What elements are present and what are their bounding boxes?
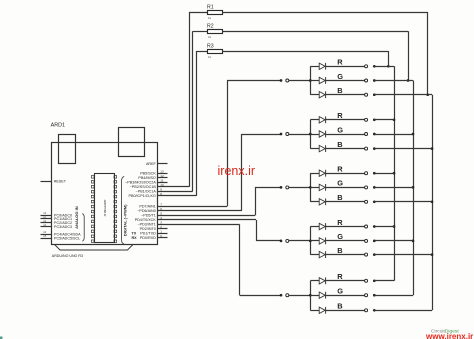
junction common node group 5 xyxy=(309,294,312,297)
wire group 5 feed vertical xyxy=(239,224,241,295)
RGB LED group 5 xyxy=(158,224,433,313)
diode group 3 B xyxy=(319,199,325,205)
wire group 5 B to bus xyxy=(374,310,432,312)
wire R1 left vertical xyxy=(189,12,191,187)
wire group 3 R to bus xyxy=(374,173,394,175)
svg-text:PD7/AIN1: PD7/AIN1 xyxy=(139,205,155,209)
junction B bus / group 2 xyxy=(431,147,434,150)
RGB LED group 1 xyxy=(158,58,433,207)
junction R bus / group 3 xyxy=(393,172,396,175)
terminal group 2 B output xyxy=(365,147,368,150)
terminal group 5 input xyxy=(286,294,289,297)
wire terminal to common node group 4 xyxy=(289,240,310,242)
wire end dot group 2 R xyxy=(373,118,376,121)
svg-text:B: B xyxy=(337,193,342,202)
wire end dot group 3 R xyxy=(373,172,376,175)
diode group 1 G xyxy=(319,77,325,83)
wire group 2 feed horizontal xyxy=(242,134,281,136)
diode group 1 B xyxy=(319,92,325,98)
usb connector box xyxy=(59,135,76,164)
svg-text:B: B xyxy=(337,140,342,149)
terminal group 1 input xyxy=(286,79,289,82)
svg-text:RX: RX xyxy=(132,236,138,240)
resistor R2 xyxy=(207,24,223,39)
wire end dot group 4 B xyxy=(373,253,376,256)
wire R2 right horizontal xyxy=(223,31,409,33)
pin PD1/TXD stub (unconnected) xyxy=(158,233,168,235)
terminal group 3 R output xyxy=(365,172,368,175)
LED group 4 G cathode wire xyxy=(326,240,365,242)
wire arduino pin 10 to R1 (horizontal) xyxy=(158,186,190,188)
diode group 4 G xyxy=(319,238,325,244)
svg-text:1k: 1k xyxy=(208,35,212,39)
svg-text:13: 13 xyxy=(160,170,164,174)
wire R bus vertical xyxy=(394,66,396,280)
resistor R3 xyxy=(207,43,223,58)
wire end dot group 4 G xyxy=(373,240,376,243)
svg-text:11: 11 xyxy=(160,179,163,183)
terminal group 4 R output xyxy=(365,225,368,228)
pin PC3/ADC3 stub (analog A3) xyxy=(41,226,52,228)
wire group 1 R to bus xyxy=(374,66,394,68)
svg-text:DIGITAL (~PWM): DIGITAL (~PWM) xyxy=(123,204,128,236)
LED group 5 B anode wire xyxy=(310,310,319,312)
LED group 1 G cathode wire xyxy=(326,80,365,82)
svg-text:R: R xyxy=(337,218,343,227)
svg-text:RESET: RESET xyxy=(54,179,67,183)
wire end dot group 1 B xyxy=(373,93,376,96)
svg-text:~PD5/T1: ~PD5/T1 xyxy=(141,214,156,218)
wire group 1 B to bus xyxy=(374,94,432,96)
wire end dot group 2 xyxy=(280,133,283,136)
LED group 1 R cathode wire xyxy=(326,66,365,68)
wire R3 right horizontal xyxy=(223,51,389,53)
LED group 1 B cathode wire xyxy=(326,94,365,96)
LED group 4 G anode wire xyxy=(310,240,319,242)
LED group 3 R anode wire xyxy=(310,173,319,175)
svg-text:PD2/INT0: PD2/INT0 xyxy=(140,227,156,231)
wire group 2 B to bus xyxy=(374,148,432,150)
junction common node group 3 xyxy=(309,186,312,189)
svg-text:G: G xyxy=(337,287,343,296)
wire group 3 B to bus xyxy=(374,201,432,203)
wire end dot group 5 G xyxy=(373,294,376,297)
junction G bus / group 4 xyxy=(412,240,415,243)
pin PD0/RXD stub (unconnected) xyxy=(158,237,168,239)
svg-text:PC3/ADC3: PC3/ADC3 xyxy=(54,225,72,229)
diode group 5 B xyxy=(319,307,325,313)
wire terminal to common node group 2 xyxy=(289,134,310,136)
junction R bus / group 4 xyxy=(393,225,396,228)
svg-text:PB0/ICP1/CLKO: PB0/ICP1/CLKO xyxy=(129,194,156,198)
wire end dot group 5 B xyxy=(373,309,376,312)
wire common vertical group 4 xyxy=(310,227,312,255)
junction R2 drop to group 1 row xyxy=(407,79,410,82)
wire group 3 feed horizontal xyxy=(255,187,281,189)
pin AREF stub xyxy=(158,163,168,165)
digital group bracket xyxy=(122,176,125,244)
svg-text:12: 12 xyxy=(160,174,164,178)
svg-text:G: G xyxy=(337,125,343,134)
wire R3 bus drop vertical xyxy=(388,51,390,66)
resistor R1 xyxy=(207,4,223,19)
arduino board ARD1 xyxy=(41,123,168,259)
wire end dot group 3 G xyxy=(373,186,376,189)
junction B bus / group 3 xyxy=(431,200,434,203)
LED group 1 G anode wire xyxy=(310,80,319,82)
wire R1 bus drop vertical xyxy=(427,12,429,95)
wire end dot group 5 xyxy=(280,294,283,297)
svg-text:ARD1: ARD1 xyxy=(51,123,65,129)
terminal group 2 R output xyxy=(365,118,368,121)
LED group 3 R cathode wire xyxy=(326,173,365,175)
wire group 2 R to bus xyxy=(374,119,394,121)
diode group 5 G xyxy=(319,292,325,298)
LED group 5 R anode wire xyxy=(310,280,319,282)
junction B bus / group 4 xyxy=(431,253,434,256)
svg-text:B: B xyxy=(337,302,342,311)
terminal group 4 input xyxy=(286,239,289,242)
svg-text:B: B xyxy=(337,86,342,95)
wire common vertical group 2 xyxy=(310,120,312,149)
svg-text:~PB3/MOSI/OC2A: ~PB3/MOSI/OC2A xyxy=(125,181,156,185)
pin RESET stub xyxy=(41,181,52,183)
wire end dot group 1 G xyxy=(373,79,376,82)
terminal group 1 G output xyxy=(365,79,368,82)
terminal group 3 B output xyxy=(365,200,368,203)
wire common vertical group 5 xyxy=(310,281,312,311)
pin PB4/MISO stub (unconnected) xyxy=(158,177,168,179)
LED group 3 B anode wire xyxy=(310,201,319,203)
wire group 3 G to bus xyxy=(374,187,413,189)
LED group 3 B cathode wire xyxy=(326,201,365,203)
wire end dot group 1 R xyxy=(373,65,376,68)
wire group 5 feed horizontal xyxy=(240,295,281,297)
wire terminal to common node group 3 xyxy=(289,187,310,189)
diode group 2 B xyxy=(319,145,325,151)
LED group 2 G anode wire xyxy=(310,134,319,136)
svg-text:PD4/T0/XCK: PD4/T0/XCK xyxy=(135,218,157,222)
diode group 4 B xyxy=(319,251,325,257)
svg-text:1k: 1k xyxy=(208,16,212,20)
svg-text:G: G xyxy=(337,232,343,241)
RGB LED group 4 xyxy=(158,218,433,258)
wire end dot group 3 B xyxy=(373,200,376,203)
LED group 1 R anode wire xyxy=(310,66,319,68)
svg-text:ATMEGA328P: ATMEGA328P xyxy=(103,199,107,216)
IC pin squares left and right xyxy=(91,176,116,243)
svg-text:irenx.ir: irenx.ir xyxy=(218,164,256,178)
diode group 4 R xyxy=(319,223,325,229)
wire R2 bus drop vertical xyxy=(408,31,410,80)
LED group 4 B anode wire xyxy=(310,254,319,256)
LED group 5 B cathode wire xyxy=(326,310,365,312)
svg-text:ARDUINO UNO R3: ARDUINO UNO R3 xyxy=(52,254,83,258)
terminal group 2 input xyxy=(286,133,289,136)
svg-text:~PD6/AIN0: ~PD6/AIN0 xyxy=(137,209,156,213)
svg-text:R1: R1 xyxy=(207,4,214,10)
terminal group 1 R output xyxy=(365,65,368,68)
wire arduino pin 7 to group 1 (horizontal) xyxy=(158,206,228,208)
wire terminal to common node group 5 xyxy=(289,295,310,297)
LED group 2 R cathode wire xyxy=(326,119,365,121)
svg-text:www.irenx.ir: www.irenx.ir xyxy=(425,332,473,339)
wire G bus vertical xyxy=(413,81,415,296)
junction G bus / group 3 xyxy=(412,186,415,189)
pin PB5/SCK stub (unconnected) xyxy=(158,173,168,175)
svg-text:ANALOG IN: ANALOG IN xyxy=(74,206,79,229)
wire arduino pin 5 to group 3 (horizontal) xyxy=(158,215,256,217)
svg-text:TX: TX xyxy=(132,232,137,236)
junction common node group 4 xyxy=(309,240,312,243)
wire common vertical group 1 xyxy=(310,66,312,94)
wire arduino pin 3 to group 5 (horizontal) xyxy=(158,224,240,226)
wire group 4 B to bus xyxy=(374,254,432,256)
pin PC4/ADC4/SDA stub (analog A4) xyxy=(41,234,52,236)
wire group 4 feed horizontal xyxy=(256,240,281,242)
wire group 1 feed vertical xyxy=(227,81,229,207)
terminal group 2 G output xyxy=(365,133,368,136)
LED group 2 G cathode wire xyxy=(326,134,365,136)
terminal group 5 G output xyxy=(365,294,368,297)
diode group 2 G xyxy=(319,131,325,137)
pin PC0/ADC0 stub (analog A0) xyxy=(41,215,52,217)
wire R2 left horizontal xyxy=(193,31,208,33)
wire R3 left vertical xyxy=(196,51,198,196)
diode group 5 R xyxy=(319,278,325,284)
svg-text:PB5/SCK: PB5/SCK xyxy=(140,172,156,176)
svg-text:R: R xyxy=(337,165,343,174)
wire group 2 feed vertical xyxy=(241,134,243,211)
pin PC2/ADC2 stub (analog A2) xyxy=(41,222,52,224)
IC ATMEGA328P body xyxy=(95,174,115,243)
diode group 3 R xyxy=(319,170,325,176)
wire end dot group 1 xyxy=(280,79,283,82)
LED group 3 G cathode wire xyxy=(326,187,365,189)
junction R3 drop to group 1 row xyxy=(387,65,390,68)
LED group 5 R cathode wire xyxy=(326,280,365,282)
svg-text:AREF: AREF xyxy=(146,162,157,166)
diode group 2 R xyxy=(319,117,325,123)
svg-text:G: G xyxy=(337,179,343,188)
wire group 1 feed horizontal xyxy=(227,80,281,82)
wire group 5 R to bus xyxy=(374,280,394,282)
wire common vertical group 3 xyxy=(310,173,312,202)
wire R1 right horizontal xyxy=(223,12,428,14)
LED group 1 B anode wire xyxy=(310,94,319,96)
terminal group 5 R output xyxy=(365,279,368,282)
svg-text:R: R xyxy=(337,272,343,281)
junction R bus / group 2 xyxy=(393,118,396,121)
LED group 2 B cathode wire xyxy=(326,148,365,150)
wire R2 left vertical xyxy=(192,31,194,191)
svg-text:~PB2/SS/OC1B: ~PB2/SS/OC1B xyxy=(130,185,157,189)
RGB LED group 3 xyxy=(158,165,433,216)
wire group 4 R to bus xyxy=(374,226,394,228)
LED group 4 R anode wire xyxy=(310,226,319,228)
junction G bus / group 2 xyxy=(412,133,415,136)
LED group 3 G anode wire xyxy=(310,187,319,189)
svg-text:~PD3/INT1: ~PD3/INT1 xyxy=(137,223,155,227)
svg-text:PC5/ADC5/SCL: PC5/ADC5/SCL xyxy=(54,237,80,241)
junction common node group 1 xyxy=(309,79,312,82)
LED group 4 B cathode wire xyxy=(326,254,365,256)
wire R3 left horizontal xyxy=(196,51,207,53)
wire arduino pin 9 to R2 (horizontal) xyxy=(158,191,193,193)
terminal group 4 B output xyxy=(365,253,368,256)
svg-text:PD0/RXD: PD0/RXD xyxy=(140,236,156,240)
wire group 3 feed vertical xyxy=(255,187,257,215)
wire terminal to common node group 1 xyxy=(289,80,310,82)
LED group 5 G anode wire xyxy=(310,295,319,297)
svg-text:R: R xyxy=(337,58,343,67)
wire end dot group 5 R xyxy=(373,279,376,282)
svg-text:G: G xyxy=(337,72,343,81)
terminal group 1 B output xyxy=(365,93,368,96)
arduino body outline xyxy=(52,143,158,245)
pin PC1/ADC1 stub (analog A1) xyxy=(41,218,52,220)
svg-text:R3: R3 xyxy=(207,43,214,49)
wire group 4 G to bus xyxy=(374,240,413,242)
wire end dot group 4 R xyxy=(373,225,376,228)
wire group 1 G to bus xyxy=(374,80,413,82)
LED group 2 B anode wire xyxy=(310,148,319,150)
LED group 5 G cathode wire xyxy=(326,295,365,297)
svg-text:R2: R2 xyxy=(207,24,214,30)
svg-text:R: R xyxy=(337,111,343,120)
terminal group 5 B output xyxy=(365,309,368,312)
pin PD2/INT0 stub xyxy=(158,228,168,230)
LED group 2 R anode wire xyxy=(310,119,319,121)
wire B bus vertical xyxy=(432,95,434,311)
svg-text:B: B xyxy=(337,246,342,255)
wire R1 left horizontal xyxy=(189,12,207,14)
svg-text:~PB1/OC1A: ~PB1/OC1A xyxy=(136,190,157,194)
terminal group 3 input xyxy=(286,186,289,189)
board bottom flap outline xyxy=(55,245,134,251)
wire arduino pin 8 to R3 (horizontal) xyxy=(158,195,197,197)
svg-text:1k: 1k xyxy=(208,55,212,59)
LED group 4 R cathode wire xyxy=(326,226,365,228)
diode group 1 R xyxy=(319,63,325,69)
wire end dot group 4 xyxy=(280,240,283,243)
svg-text:PB4/MISO: PB4/MISO xyxy=(138,176,156,180)
wire group 4 feed vertical xyxy=(256,220,258,241)
wire arduino pin 4 to group 4 (horizontal) xyxy=(158,219,257,221)
RGB LED group 2 xyxy=(158,111,433,211)
svg-text:PD1/TXD: PD1/TXD xyxy=(140,232,156,236)
pin PC5/ADC5/SCL stub (analog A5) xyxy=(41,238,52,240)
wire group 5 G to bus xyxy=(374,295,413,297)
wire end dot group 2 B xyxy=(373,147,376,150)
junction R1 drop to group 1 row xyxy=(426,93,429,96)
terminal group 3 G output xyxy=(365,186,368,189)
wire arduino pin 6 to group 2 (horizontal) xyxy=(158,210,242,212)
wire end dot group 3 xyxy=(280,186,283,189)
junction common node group 2 xyxy=(309,133,312,136)
diode group 3 G xyxy=(319,184,325,190)
wire end dot group 2 G xyxy=(373,133,376,136)
analog group bracket xyxy=(82,214,84,242)
wire group 2 G to bus xyxy=(374,134,413,136)
terminal group 4 G output xyxy=(365,239,368,242)
power jack box xyxy=(119,128,145,157)
pin ~PB3/MOSI/OC2A stub (unconnected) xyxy=(158,182,168,184)
